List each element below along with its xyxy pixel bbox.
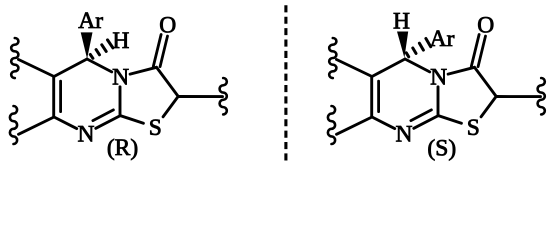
svg-text:N: N [112, 64, 129, 90]
wire bond S-C8a [438, 116, 461, 124]
wire bond C8a-N4 [119, 87, 122, 116]
wire bond C2-S [481, 96, 496, 116]
molecule (S)-isomer [328, 8, 545, 161]
svg-text:(R): (R) [107, 135, 138, 161]
wire double bond C8a=N8 [96, 116, 121, 129]
wire double bond C6=C7 [52, 77, 55, 118]
wire bond C2-c [178, 95, 222, 98]
wire bond b-C7 [19, 117, 55, 134]
molecule (R)-isomer [10, 8, 227, 161]
separator dashed line [284, 5, 287, 160]
wedge bond C5-Ar (left) [81, 32, 93, 58]
svg-text:S: S [467, 115, 480, 141]
svg-text:S: S [149, 115, 162, 141]
wire bond C7-N8 [54, 117, 77, 129]
svg-text:Ar: Ar [78, 8, 103, 34]
wire bond N4-C3 [130, 67, 156, 74]
svg-text:H: H [393, 8, 410, 34]
svg-text:N: N [396, 122, 413, 148]
wire bond a-C6 [337, 60, 373, 77]
wire bond C5-N4 [87, 59, 112, 72]
svg-text:H: H [112, 28, 129, 54]
wire double bond C8a=N8 [414, 116, 439, 129]
svg-text:O: O [159, 12, 176, 38]
wire bond C3-C2 [475, 67, 497, 96]
wire squiggly attachment c (right) [538, 78, 545, 114]
wire squiggly attachment a (left) [11, 38, 18, 78]
wire squiggly attachment c (left) [220, 78, 227, 114]
svg-text:N: N [430, 64, 447, 90]
wire bond S-C8a [120, 116, 143, 124]
wire double bond C3=O [478, 36, 485, 67]
wire bond C2-S [163, 96, 178, 116]
svg-text:Ar: Ar [430, 26, 455, 52]
wire bond b-C7 [337, 117, 373, 134]
svg-text:N: N [78, 122, 95, 148]
wire bond C3-C2 [157, 67, 179, 96]
wire bond C5-N4 [405, 59, 430, 72]
wire bond N4-C3 [448, 67, 474, 74]
wedge bond C5-H (right) [397, 32, 408, 58]
hash bond C5-Ar (right) [406, 53, 408, 57]
svg-text:(S): (S) [427, 136, 456, 162]
wire bond a-C6 [19, 60, 55, 77]
wire double bond C3=O [160, 36, 167, 67]
svg-text:O: O [477, 12, 494, 38]
wire squiggly attachment b (right) [328, 106, 335, 144]
wire bond C2-c [496, 95, 540, 98]
wire double bond C6=C7 [370, 77, 373, 118]
hash bond C5-H (left) [90, 55, 93, 59]
wire bond C7-N8 [372, 117, 395, 129]
wire bond C6-C5 [372, 59, 405, 77]
wire squiggly attachment a (right) [329, 38, 336, 78]
wire squiggly attachment b (left) [10, 106, 17, 144]
wire bond C8a-N4 [437, 87, 440, 116]
wire bond C6-C5 [54, 59, 87, 77]
